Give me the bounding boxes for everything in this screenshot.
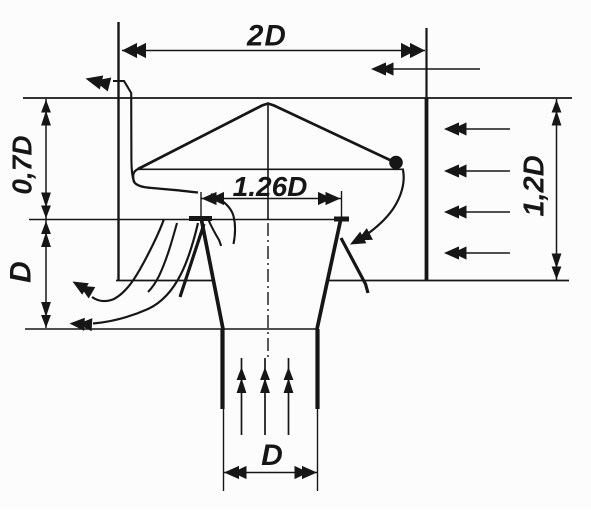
label 1.26D	[233, 171, 308, 202]
dimension D-bottom left arrow	[224, 466, 247, 479]
streamline S1 exiting left with up-left arrow	[69, 219, 164, 301]
strut right	[341, 238, 368, 293]
diffuser top-right corner thickening	[334, 217, 349, 222]
dimension 1.26D left arrow	[202, 192, 225, 205]
umbrella left brim curl	[133, 169, 198, 193]
dimension 0,7D top arrow (up)	[41, 100, 51, 126]
pipe wall right	[315, 329, 319, 409]
umbrella roof base line	[137, 168, 404, 170]
pipe flow arrow right	[284, 358, 294, 435]
dimension 1.26D extension line left x=201	[200, 192, 202, 219]
strut left	[180, 224, 204, 297]
svg-text:D: D	[5, 261, 38, 283]
label 0,7D	[7, 135, 38, 194]
pipe wall left	[220, 329, 224, 409]
dimension 1,2D bottom arrow (down)	[552, 254, 562, 280]
dimension D-bottom extension line right x=317.5	[317, 408, 319, 491]
wire: bottom box line y=280.5 right segment	[328, 280, 569, 282]
dimension 1,2D dim line x=556.5	[556, 99, 558, 280]
centre axis solid upper part	[267, 105, 269, 219]
streamline C1 curling into diffuser mouth	[211, 194, 235, 244]
dimension 2D dim line	[122, 50, 425, 52]
wind arrow row 3	[444, 205, 510, 218]
diffuser top-left corner thickening	[189, 216, 212, 221]
label D left	[5, 261, 38, 283]
label 2D	[246, 20, 287, 53]
streamline C2 curling into diffuser mouth	[209, 220, 222, 246]
dimension D-bottom dim line y=472.5	[224, 472, 317, 474]
label 1,2D	[519, 155, 551, 216]
label D bottom	[261, 439, 283, 472]
dimension D-left bottom arrow (down)	[41, 302, 51, 328]
umbrella roof cone	[138, 104, 391, 170]
dimension 2D right arrow	[401, 43, 425, 58]
svg-text:1.26D: 1.26D	[233, 171, 308, 202]
diffuser right edge	[317, 221, 341, 330]
diffuser left edge	[202, 220, 224, 329]
wind arrow above top line	[371, 62, 480, 75]
wire: top horizontal boundary line y=98	[23, 97, 572, 99]
dimension D-bottom right arrow	[295, 466, 318, 479]
wire: bottom box line y=280.5 left segment	[116, 280, 213, 282]
dimension 2D left arrow	[122, 43, 146, 58]
dimension D-left top arrow (up)	[41, 221, 51, 247]
wire: right vertical box edge / 2D extension x=426.5	[425, 28, 427, 280]
pipe flow arrow left	[237, 358, 247, 435]
umbrella rolled right edge	[389, 156, 403, 170]
wire: mid construction line y=219.5 (diffuser top level)	[29, 219, 341, 221]
svg-text:2D: 2D	[246, 20, 287, 53]
dimension 1.26D right arrow	[318, 192, 341, 205]
streamline exiting top-left with arrow	[84, 71, 135, 182]
wind arrow row 1	[444, 122, 510, 135]
svg-text:D: D	[261, 439, 283, 472]
streamline S2 exiting lower-left with left arrow	[69, 223, 198, 331]
dimension 1.26D extension line right x=341.5	[341, 191, 343, 219]
pipe flow arrow centre	[260, 358, 270, 435]
wire: lower construction line y=328 (diffuser/pipe junction)	[25, 328, 317, 330]
wire: left vertical box edge / 2D extension x=118.5	[117, 22, 119, 281]
svg-text:0,7D: 0,7D	[7, 135, 38, 194]
dimension 1.26D dim line y=198.5	[201, 198, 341, 200]
streamline wrapping right cap edge with arrow	[347, 170, 404, 250]
streamline S2 middle (no arrow)	[148, 223, 177, 292]
svg-text:1,2D: 1,2D	[519, 155, 551, 216]
dimension D-bottom extension line left x=223.5	[223, 408, 225, 491]
dimension 0,7D bottom arrow (down)	[41, 193, 51, 219]
dimension 0,7D / D shared dim line x=46	[45, 99, 47, 328]
wind arrow row 4	[444, 246, 510, 259]
dimension 1,2D top arrow (up)	[552, 100, 562, 126]
wind arrow row 2	[444, 164, 510, 177]
centre axis dash-dot lower part	[267, 223, 269, 358]
